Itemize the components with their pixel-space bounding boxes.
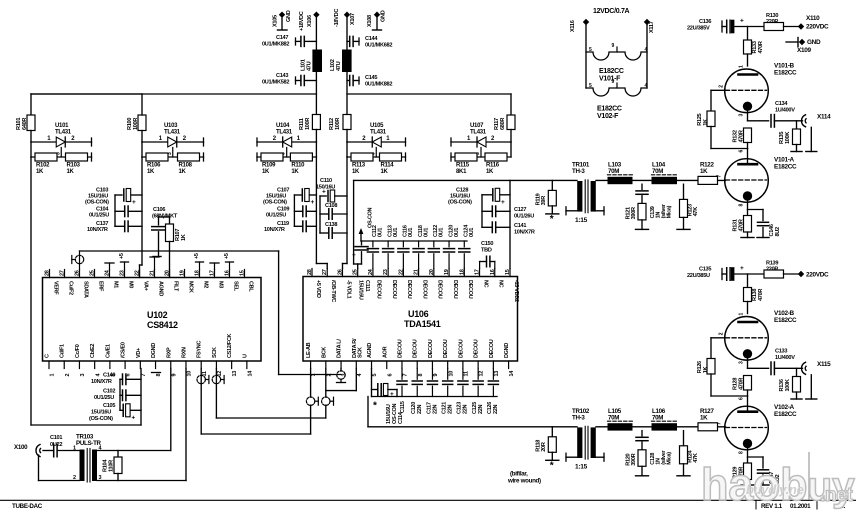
jumper pair FSYNC [197,375,224,383]
svg-text:LE-AB: LE-AB [306,342,312,358]
svg-text:27: 27 [60,270,66,276]
capacitor C105 [89,403,141,422]
resistor R111 [312,115,320,130]
svg-text:C105: C105 [103,403,115,409]
svg-text:15: 15 [240,270,246,276]
svg-text:X106: X106 [307,15,313,27]
svg-text:17: 17 [475,269,481,275]
svg-text:R113: R113 [352,163,366,169]
pin 17 M3 [210,270,224,289]
svg-text:1K: 1K [703,366,709,373]
svg-text:100K: 100K [785,379,791,391]
pin 5 Ca/E1 [105,344,116,377]
svg-text:20: 20 [429,269,435,275]
label bifilar note [507,471,541,485]
capacitor C115 [397,369,407,414]
svg-text:U105: U105 [370,123,384,129]
svg-text:CS8412: CS8412 [147,320,178,330]
svg-text:ERF: ERF [97,281,103,292]
wire output channel [368,426,726,428]
svg-text:1: 1 [50,374,56,377]
svg-text:DECOU: DECOU [467,280,473,299]
svg-text:CBL: CBL [247,281,253,292]
resistors R106 R108 divider [142,141,204,143]
pin 19 DECOU [444,269,458,299]
svg-text:X115: X115 [817,361,831,368]
inductor L101 [301,50,323,73]
wire RXP [170,369,172,451]
svg-text:TL431: TL431 [276,130,293,136]
svg-text:NC: NC [482,280,488,288]
svg-text:25: 25 [353,269,359,275]
svg-text:18: 18 [459,269,465,275]
svg-text:R102: R102 [36,163,50,169]
svg-text:640R: 640R [22,118,28,130]
svg-text:47U: 47U [306,61,312,71]
capacitor C113 [383,225,399,268]
svg-text:1K: 1K [486,169,494,175]
svg-text:VERF: VERF [52,281,58,295]
resistor R118 [536,427,559,472]
svg-text:-18VDC: -18VDC [334,9,340,27]
label 12VDC/0.7A [593,8,630,15]
svg-text:0U1/MK682: 0U1/MK682 [365,43,392,49]
inductor L105 [608,408,633,431]
svg-text:1K: 1K [291,169,299,175]
svg-text:22: 22 [398,269,404,275]
wire SCK to BCK [216,369,356,419]
wire SDATA route [80,251,342,375]
label V102-B E182CC [774,310,797,324]
svg-text:R108: R108 [179,163,193,169]
pin 2 Cd/F1 [60,344,71,377]
svg-text:DECOU: DECOU [376,280,382,299]
pin 15 CBL [240,270,254,293]
svg-text:SCK: SCK [212,347,218,358]
resistor R120 [626,450,649,476]
svg-text:+: + [740,18,744,25]
wire RXN [97,369,186,481]
capacitor C127 [482,206,534,219]
svg-text:23: 23 [120,270,126,276]
svg-text:47K: 47K [693,207,699,217]
svg-text:100R: 100R [133,118,139,130]
pin 23 M0 [120,270,134,289]
pin 3 Cc/F0 [75,344,86,376]
resistor R136 [779,368,802,399]
svg-text:22N: 22N [493,404,499,414]
svg-text:390R: 390R [631,453,637,465]
svg-text:10N/X7R: 10N/X7R [264,227,285,233]
wire AGND to channel (lower) [367,397,369,427]
svg-text:8: 8 [418,374,424,377]
wire VA+ rail [115,157,142,278]
svg-text:C106: C106 [153,207,165,213]
svg-text:1: 1 [311,374,317,377]
wire output channel [354,179,726,181]
svg-text:U: U [242,354,248,358]
capacitor C109 0U1 (+5 rail) [266,206,316,218]
pin 12 SCK [212,347,223,377]
svg-text:0U1/25U: 0U1/25U [89,213,109,219]
resistor R130 [764,13,799,31]
capacitor C110 [316,178,347,202]
svg-text:C115: C115 [400,401,406,413]
svg-text:13: 13 [494,371,500,377]
resistor R119 [536,180,559,225]
svg-text:DECOU: DECOU [458,339,464,358]
label TUBE-DAC [12,503,43,510]
resistor R104 [97,451,171,481]
svg-text:22U/385V: 22U/385V [687,26,710,32]
svg-text:17: 17 [210,270,216,276]
svg-text:220VDC: 220VDC [806,272,829,279]
svg-text:Cu/F2: Cu/F2 [67,281,73,295]
svg-text:22N: 22N [447,404,453,414]
svg-text:C127: C127 [514,207,526,213]
svg-text:C145: C145 [365,75,377,81]
svg-text:X107: X107 [350,13,356,25]
pin 11 DECOU [458,339,469,376]
svg-text:3: 3 [342,374,348,377]
capacitor C118 [413,225,429,268]
svg-text:1:15: 1:15 [575,463,588,470]
svg-text:X116: X116 [570,20,576,32]
resistor R129 [733,463,755,485]
svg-text:GND: GND [286,10,292,22]
pin 21 AGND [150,270,164,297]
svg-text:X105: X105 [273,15,279,27]
svg-text:(OS-CON): (OS-CON) [263,200,287,206]
svg-text:1K: 1K [700,414,708,421]
triode V101-B [718,65,768,121]
resistor R132 [733,128,752,149]
wire -15V rail [482,180,510,268]
svg-text:C133: C133 [775,349,787,355]
node GND X109 [786,38,821,55]
svg-text:C101: C101 [50,435,62,441]
pin 6 AOR [382,346,393,376]
capacitor C146 [748,210,782,238]
svg-text:25: 25 [90,270,96,276]
svg-text:22: 22 [135,270,141,276]
regulator U105 TL431 [329,115,406,176]
svg-text:U104: U104 [276,123,290,129]
transformer TR103 PULS-TR [73,434,103,483]
svg-text:CS12/FCK: CS12/FCK [227,333,233,358]
pin 4 Cb/E2 [90,344,101,377]
svg-text:15U/16U: 15U/16U [91,410,111,416]
resistor R139 [764,261,799,279]
resistors R113 R114 divider [347,141,406,143]
connector X115 [802,361,832,399]
svg-text:OS-CON: OS-CON [368,207,374,228]
svg-text:+5: +5 [119,253,125,259]
heater V102-F [586,79,648,96]
svg-text:0U1/26U: 0U1/26U [514,214,534,220]
connector X108 (GND stub) [367,10,387,30]
svg-text:V101-A: V101-A [774,157,795,164]
svg-text:7: 7 [141,374,147,377]
resistor R112 [343,115,351,130]
transformer TR101 TH-3 [566,161,604,224]
capacitor C120 [411,369,423,415]
connector X116 [570,19,589,88]
resistor R125 [697,111,715,149]
svg-text:100K: 100K [785,132,791,144]
capacitor C128b 15U/16U [448,188,510,206]
regulator U107 TL431 [451,115,515,175]
svg-text:70M: 70M [608,414,619,421]
svg-text:C108: C108 [325,203,337,209]
svg-text:/OB-TWC: /OB-TWC [330,280,336,302]
capacitor C140 [91,373,141,386]
svg-text:MCK: MCK [187,281,193,293]
resistor R126 [697,359,715,397]
resistor R138 [744,274,765,314]
pin 1 LE-AB [306,342,317,376]
svg-text:390R: 390R [631,207,637,219]
svg-text:C141: C141 [514,223,526,229]
capacitor C139 [636,184,673,218]
svg-text:7: 7 [403,374,409,377]
pin 16 SEL [225,270,239,292]
svg-text:M0: M0 [127,281,133,288]
capacitor C128 [636,431,673,465]
wire -5 VDL rail [320,157,347,269]
capacitor C138 [320,222,347,238]
svg-text:X114: X114 [817,114,831,121]
inductor L103 [608,161,633,184]
svg-text:TL431: TL431 [164,130,181,136]
capacitor C150 [480,241,495,269]
svg-text:Cd/F1: Cd/F1 [60,344,66,358]
pin 25 ERF [90,270,104,293]
svg-text:GND: GND [807,39,821,46]
svg-text:C102: C102 [103,389,115,395]
frame footer line [0,500,856,509]
capacitor C101 [43,435,80,457]
wire SPDIF loop [39,455,80,481]
svg-text:Cb/E2: Cb/E2 [90,344,96,358]
svg-text:X110: X110 [806,15,820,22]
svg-text:0U1: 0U1 [378,228,384,237]
svg-text:22N: 22N [432,404,438,414]
svg-text:VD+: VD+ [136,348,142,358]
svg-text:8K1: 8K1 [456,169,467,175]
svg-text:470R: 470R [739,130,745,142]
label E182CC V101-F [599,68,624,83]
svg-text:100R: 100R [335,118,341,130]
resistor R121 [626,203,649,229]
svg-text:470R: 470R [739,219,745,231]
svg-text:470R: 470R [758,41,764,53]
svg-text:E182CC: E182CC [774,317,797,324]
resistors R115 R116 divider [451,141,511,143]
pin 20 DECOU [429,269,443,299]
svg-text:28: 28 [307,269,313,275]
resistor R123 [677,184,699,229]
resistors R102 R103 divider [31,141,92,143]
resistor R101 [27,115,35,131]
pin 12 DECOU [474,339,485,376]
+5 tie on pin (M0) [119,253,129,269]
capacitor C102 [94,389,141,402]
capacitor C147 [748,457,782,485]
watermark haobuy.net [701,452,855,510]
svg-text:DECOU: DECOU [443,339,449,358]
pin 24 DECOU [368,268,382,298]
capacitor C108 [320,203,347,219]
svg-text:E182CC: E182CC [599,68,624,75]
wire AOL to channel [354,180,358,264]
svg-text:2: 2 [326,374,332,377]
svg-text:0U22: 0U22 [50,442,62,448]
svg-text:TH-3: TH-3 [572,168,585,175]
svg-text:SDATA: SDATA [82,281,88,298]
svg-text:(bifilar,: (bifilar, [510,471,528,478]
wire grid upper [711,90,726,111]
svg-text:TBD: TBD [481,248,492,254]
svg-text:.net: .net [820,485,854,506]
svg-text:buydiy.ne: buydiy.ne [746,482,804,497]
svg-text:0U1/MK882: 0U1/MK882 [365,82,392,88]
svg-text:+: + [311,199,315,206]
svg-text:C144: C144 [365,36,378,42]
resistor R117 [507,115,515,130]
pin 10 DECOU [443,339,454,376]
svg-text:C136: C136 [699,19,711,25]
svg-text:AOR: AOR [382,346,388,358]
svg-text:1K: 1K [262,169,270,175]
svg-text:TUBE-DAC: TUBE-DAC [12,503,43,510]
svg-text:DECOU: DECOU [391,280,397,299]
svg-text:+18VDC: +18VDC [299,11,305,31]
pin 15 -15 VDD2 [505,269,519,302]
svg-text:Mica): Mica) [667,205,673,218]
svg-text:220VDC: 220VDC [806,24,829,31]
node 220VDC (lower) [798,271,829,279]
svg-text:DATA L/: DATA L/ [337,339,343,358]
svg-text:X117: X117 [649,21,655,33]
svg-text:R110: R110 [291,163,305,169]
connector X105 (GND stub) [273,10,293,30]
resistor R131 [733,216,755,238]
capacitor C116 [398,225,414,268]
svg-text:X109: X109 [797,47,811,54]
capacitor C120 [444,225,460,269]
svg-text:VA+: VA+ [142,281,148,291]
svg-text:22N: 22N [417,404,423,414]
pin 21 DECOU [414,269,428,299]
svg-text:/CS/E0: /CS/E0 [121,342,127,358]
svg-text:1K: 1K [67,169,75,175]
jumper on DATA L [337,369,346,383]
svg-text:1K: 1K [381,169,389,175]
svg-text:DECOU: DECOU [437,280,443,299]
connector X100 [14,444,41,457]
wire SRPP link [711,395,748,397]
resistor R122 [698,161,718,184]
pin 2 BCK [321,347,332,377]
svg-text:DECOU: DECOU [452,280,458,299]
ground tie on pin (M1) [105,263,114,270]
svg-text:FILT: FILT [172,281,178,292]
pin 7 DECOU [397,339,408,376]
svg-text:19: 19 [180,270,186,276]
svg-text:10N/X7R: 10N/X7R [514,230,535,236]
connector X117 [644,19,655,88]
pin 17 NC [475,269,489,288]
svg-text:0U1: 0U1 [439,228,445,237]
capacitor C145 [347,75,392,88]
svg-text:+: + [501,199,505,206]
svg-text:U101: U101 [55,123,69,129]
label E182CC V102-F [597,106,622,121]
svg-text:C143: C143 [276,73,288,79]
svg-text:(OS-CON): (OS-CON) [448,200,472,206]
capacitor C147 [262,35,316,48]
resistor R135 [779,121,802,152]
regulator U103 TL431 [31,94,204,175]
pin 19 MCK [180,270,194,293]
svg-text:X100: X100 [14,444,28,451]
pin 27 Cu/F2 [60,270,74,296]
svg-text:+5: +5 [194,253,200,259]
svg-text:+: + [132,199,136,206]
+5 tie on pin (SEL) [224,253,234,269]
resistors R109 R110 divider [257,141,316,143]
wire -18V rail [347,72,511,115]
jumper pair BCK/LE [306,397,333,405]
svg-text:18: 18 [195,270,201,276]
wire +5V digital wrap [31,157,141,425]
svg-text:28: 28 [45,270,51,276]
svg-text:U103: U103 [164,123,178,129]
svg-text:22N: 22N [463,404,469,414]
capacitor C125 [472,369,484,415]
label V101-A E182CC [774,157,797,171]
regulator U101 TL431 [16,115,92,175]
pin 18 DECOU [459,269,473,299]
node +18VDC / connector X106 [299,11,320,49]
svg-text:680R: 680R [500,118,506,130]
svg-text:1U/400V: 1U/400V [775,108,795,114]
connector X114 [802,114,832,152]
transformer TR102 TH-3 [566,408,604,471]
pin 10 RXN [181,347,192,377]
svg-text:DECOU: DECOU [413,339,419,358]
pin 14 U [242,354,253,377]
svg-text:E182CC: E182CC [774,70,797,77]
jumper on SDATA pin 26 [72,251,84,270]
svg-text:0U1: 0U1 [454,228,460,237]
svg-text:M3: M3 [217,281,223,288]
svg-text:C111: C111 [364,280,370,292]
svg-text:R103: R103 [67,163,81,169]
svg-text:1K: 1K [700,168,708,175]
capacitor C137 [87,221,142,233]
svg-text:DECOU: DECOU [406,280,412,299]
svg-text:X108: X108 [367,15,373,27]
svg-text:DECOU: DECOU [489,339,495,358]
svg-text:0U1: 0U1 [423,228,429,237]
svg-text:100R: 100R [305,118,311,130]
svg-text:16: 16 [225,270,231,276]
wire output node [748,120,769,122]
svg-text:DECOU: DECOU [474,339,480,358]
svg-text:*: * [550,460,554,471]
